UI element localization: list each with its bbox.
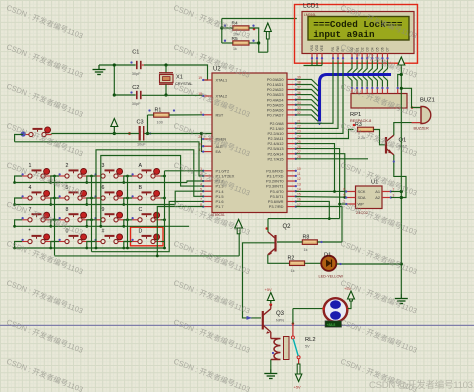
wire WP link: [340, 203, 347, 205]
node: [85, 225, 88, 228]
node: [49, 225, 52, 228]
wire Q2 emitter: [268, 255, 290, 263]
wire col3: [127, 176, 129, 248]
node: [126, 175, 129, 178]
wire col2: [91, 176, 93, 252]
wire row1: [15, 182, 187, 184]
node: [13, 225, 16, 228]
wire: [51, 175, 55, 177]
wire: [144, 65, 208, 80]
wire lcd data: [348, 61, 353, 73]
wire: [15, 242, 22, 249]
wire P0 to bus: [296, 85, 319, 92]
wire P0 to bus: [296, 115, 319, 122]
node: [85, 247, 88, 250]
wire rp1 up: [368, 76, 373, 87]
wire: [161, 219, 165, 221]
wire lcd data: [358, 61, 363, 73]
lcd display LCD1 LM016L: [302, 3, 414, 61]
svg-text:CSDN : 开发者编号1103: CSDN : 开发者编号1103: [5, 356, 84, 392]
wire Q1 collector: [394, 123, 421, 136]
wire coil gnd: [270, 360, 272, 370]
wire: [249, 28, 268, 52]
wire P3.7 run: [296, 207, 343, 243]
op-amp U2 microcontroller AT89C51: [198, 67, 301, 218]
wire rp1 up: [353, 76, 358, 87]
wire lcd data: [378, 61, 383, 73]
wire: [51, 198, 59, 205]
power +5V arrow: [111, 119, 118, 134]
wire: [124, 219, 128, 221]
wire: [51, 176, 59, 183]
wire: [46, 134, 139, 135]
node R5 junction: [257, 41, 260, 44]
wire: [87, 220, 95, 227]
wire: [221, 19, 223, 44]
ground relay: [264, 369, 277, 379]
svg-text:CSDN : 开发者编号1103: CSDN : 开发者编号1103: [339, 316, 418, 354]
node: [400, 190, 403, 193]
svg-text:CSDN : 开发者编号1103: CSDN : 开发者编号1103: [5, 159, 84, 197]
relay RL2 coil: [271, 337, 316, 360]
wire rp1 up: [348, 76, 353, 87]
transistor Q2: [266, 224, 292, 256]
push button A: [131, 163, 160, 178]
wire P2.6: [296, 154, 345, 198]
wire lcd data: [373, 61, 378, 73]
node: [95, 247, 98, 250]
motor: [322, 298, 349, 327]
node XTAL2 junction: [164, 93, 167, 96]
wire P2.4: [296, 144, 335, 192]
svg-text:CSDN : 开发者编号1103: CSDN : 开发者编号1103: [5, 41, 84, 79]
node: [49, 203, 52, 206]
push button 0: [58, 229, 87, 244]
wire lcd data: [368, 61, 373, 73]
wire A2: [391, 197, 401, 199]
svg-text:CSDN : 开发者编号1103: CSDN : 开发者编号1103: [5, 120, 84, 158]
wire rail: [400, 65, 402, 294]
svg-text:CSDN : 开发者编号1103: CSDN : 开发者编号1103: [172, 277, 251, 315]
wire: [222, 18, 297, 20]
svg-text:CSDN : 开发者编号1103: CSDN : 开发者编号1103: [172, 356, 251, 392]
crystal X1: [159, 73, 193, 86]
svg-text:CSDN : 开发者编号1103: CSDN : 开发者编号1103: [339, 81, 418, 119]
svg-text:CSDN : 开发者编号1103: CSDN : 开发者编号1103: [5, 238, 84, 276]
wire: [165, 84, 167, 95]
wire D1 right: [336, 263, 401, 265]
wire lcd data: [383, 61, 388, 73]
wire P2.5: [296, 149, 340, 219]
wire: [161, 197, 165, 199]
push button 1: [21, 163, 50, 178]
svg-text:CSDN : 开发者编号1103: CSDN : 开发者编号1103: [172, 41, 251, 79]
wire col1: [54, 176, 56, 255]
push button 7: [21, 207, 50, 222]
wire A1: [391, 191, 401, 193]
wire: [87, 198, 95, 205]
selection box LCD: [295, 5, 418, 64]
power +5V arrow EA: [223, 119, 230, 134]
power arrow down: [294, 364, 302, 390]
resistor pack RP1 RESPACK-8: [350, 87, 407, 123]
wire lcd data: [353, 61, 358, 73]
node R1-C3 junction: [146, 132, 149, 135]
svg-text:CSDN : 开发者编号1103: CSDN : 开发者编号1103: [5, 81, 84, 119]
wire: [15, 142, 204, 176]
push button 4: [21, 185, 50, 200]
node: [13, 247, 16, 250]
wire row4: [15, 247, 96, 249]
wire: [249, 42, 259, 44]
node: [400, 73, 403, 76]
wire: [88, 175, 92, 177]
node: [90, 197, 93, 200]
wire: [51, 241, 55, 243]
wire motor right: [348, 301, 352, 309]
wire: [55, 255, 240, 257]
svg-text:CSDN @开发者编号1103: CSDN @开发者编号1103: [369, 379, 473, 391]
push button 6: [94, 185, 123, 200]
node: [122, 181, 125, 184]
wire: [165, 65, 167, 74]
svg-text:CSDN : 开发者编号1103: CSDN : 开发者编号1103: [339, 238, 418, 276]
wire: [142, 94, 204, 96]
svg-text:CSDN : 开发者编号1103: CSDN : 开发者编号1103: [5, 277, 84, 315]
push button 3: [94, 163, 123, 178]
power +5V arrow under U2: [235, 219, 243, 256]
node: [126, 247, 129, 250]
wire: [15, 220, 22, 227]
wire: [15, 198, 22, 205]
node: [13, 181, 16, 184]
wire VSS VDD VEE: [304, 61, 323, 66]
eeprom U1 24C02: [343, 180, 394, 216]
wire Q3 feed: [243, 243, 275, 318]
node: [99, 225, 102, 228]
svg-text:CSDN : 开发者编号1103: CSDN : 开发者编号1103: [339, 199, 418, 237]
wire rp1 up: [383, 76, 388, 87]
svg-text:CSDN : 开发者编号1103: CSDN : 开发者编号1103: [339, 2, 418, 40]
node: [163, 175, 166, 178]
node: [85, 181, 88, 184]
wire: [374, 130, 386, 145]
wire riser row3: [101, 156, 204, 227]
resistor R2: [288, 255, 305, 273]
wire R2 right: [305, 262, 321, 264]
node: [53, 175, 56, 178]
svg-text:CSDN : 开发者编号1103: CSDN : 开发者编号1103: [172, 199, 251, 237]
capacitor C2: [130, 85, 141, 106]
svg-text:CSDN : 开发者编号1103: CSDN : 开发者编号1103: [172, 81, 251, 119]
wire RW: [296, 61, 339, 129]
node R4 junction: [220, 26, 223, 29]
node: [90, 218, 93, 221]
capacitor C1: [130, 50, 144, 76]
wire row2: [15, 204, 176, 206]
wire P0 to bus: [296, 79, 319, 86]
wire: [99, 64, 136, 66]
wire col4: [164, 171, 166, 248]
push button 5: [58, 185, 87, 200]
push button 2: [58, 163, 87, 178]
push button 9: [94, 207, 123, 222]
push button #: [94, 229, 123, 244]
bus tap marker: [247, 316, 253, 320]
svg-text:CSDN : 开发者编号1103: CSDN : 开发者编号1103: [339, 41, 418, 79]
resistor R5: [224, 36, 255, 51]
node: [338, 203, 341, 206]
node: [122, 247, 125, 250]
wire motor left: [293, 308, 324, 310]
power +5V arrow rail: [398, 57, 405, 65]
wire: [147, 115, 149, 134]
wire rp1 up: [358, 76, 363, 87]
svg-text:CSDN : 开发者编号1103: CSDN : 开发者编号1103: [172, 238, 251, 276]
wire P0 to bus: [296, 95, 319, 102]
wire: [15, 176, 22, 183]
svg-text:CSDN : 开发者编号1103: CSDN : 开发者编号1103: [339, 120, 418, 158]
wire R8 right: [317, 241, 342, 243]
node arrow junction: [113, 132, 116, 135]
node: [126, 218, 129, 221]
wire SDA: [296, 196, 347, 199]
power +5V arrow motor: [344, 286, 355, 301]
wire E: [296, 61, 344, 134]
wire: [88, 219, 92, 221]
wire BUZ1 power: [401, 88, 420, 107]
wire switch common: [292, 309, 294, 324]
wire Q3 emitter: [270, 332, 272, 339]
wire R8 base: [277, 241, 302, 243]
wire: [114, 94, 135, 96]
ground: [93, 65, 106, 75]
wire: [175, 191, 203, 204]
node: [122, 225, 125, 228]
wire: [92, 201, 204, 251]
node: [49, 247, 52, 250]
node C1 gnd junction: [113, 63, 116, 66]
node: [85, 203, 88, 206]
wire Q2 collector: [267, 219, 269, 232]
node: [90, 175, 93, 178]
wire: [187, 181, 204, 183]
wire: [124, 176, 132, 183]
wire row3b: [101, 225, 189, 227]
node: [13, 203, 16, 206]
node: [156, 255, 159, 258]
capacitor C3: [128, 120, 151, 147]
wire: [113, 65, 115, 95]
node XTAL1 junction: [164, 63, 167, 66]
wire: [124, 220, 132, 227]
push button D: [131, 229, 160, 244]
svg-text:CSDN : 开发者编号1103: CSDN : 开发者编号1103: [5, 2, 84, 40]
node: [328, 217, 331, 220]
node: [343, 196, 346, 199]
svg-text:CSDN : 开发者编号1103: CSDN : 开发者编号1103: [339, 159, 418, 197]
node: [49, 181, 52, 184]
wire lcd data: [363, 61, 368, 73]
wire P3.6 riser: [296, 201, 330, 218]
node EA junction: [200, 132, 203, 135]
node: [163, 197, 166, 200]
wire: [157, 207, 203, 256]
wire row4b: [96, 247, 165, 249]
buzzer BUZ1: [411, 98, 435, 131]
svg-text:CSDN : 开发者编号1103: CSDN : 开发者编号1103: [172, 159, 251, 197]
svg-text:CSDN : 开发者编号1103: CSDN : 开发者编号1103: [172, 2, 251, 40]
wire P2.3 to R3: [296, 130, 354, 139]
wire: [51, 220, 59, 227]
wire Q1 emitter: [393, 155, 406, 198]
wire SCL: [296, 190, 347, 192]
node: [400, 262, 403, 265]
svg-text:CSDN : 开发者编号1103: CSDN : 开发者编号1103: [339, 277, 418, 315]
wire: [51, 242, 59, 249]
power +5V arrow R4R5: [264, 23, 271, 52]
wire: [51, 219, 55, 221]
resistor R1: [148, 108, 175, 125]
wire Q3 collector: [270, 305, 272, 309]
push button C: [131, 207, 160, 222]
wire P2.7: [296, 158, 369, 160]
wire: [124, 175, 128, 177]
push button B: [131, 185, 160, 200]
svg-text:CSDN : 开发者编号1103: CSDN : 开发者编号1103: [172, 316, 251, 354]
push button *: [21, 229, 50, 244]
node: [400, 196, 403, 199]
node: [400, 87, 403, 90]
wire rp1 up: [363, 76, 368, 87]
wire: [87, 176, 95, 183]
wire P0 to bus: [296, 105, 319, 112]
wire rp1 up: [378, 76, 383, 87]
transistor Q1 9012: [386, 135, 407, 155]
wire RP1 common: [398, 75, 402, 87]
node C2 gnd junction: [113, 93, 116, 96]
wire: [169, 114, 204, 116]
wire sheet divider: [0, 324, 474, 326]
wire: [161, 175, 165, 177]
wire: [161, 241, 165, 243]
node: [126, 197, 129, 200]
svg-text:CSDN : 开发者编号1103: CSDN : 开发者编号1103: [5, 316, 84, 354]
wire: [202, 133, 227, 135]
selection box D key: [131, 227, 164, 246]
wire: [87, 242, 95, 249]
wire P0 to bus: [296, 90, 319, 97]
bus LCD data: [317, 75, 391, 126]
wire: [148, 114, 154, 116]
wire riser row4: [96, 150, 204, 248]
wire: [124, 242, 132, 249]
wire: [124, 197, 128, 199]
node: [122, 203, 125, 206]
wire P0 to bus: [296, 110, 319, 117]
svg-text:CSDN : 开发者编号1103: CSDN : 开发者编号1103: [5, 199, 84, 237]
resistor R8: [302, 234, 317, 252]
node: [163, 247, 166, 250]
wire RS: [296, 61, 334, 124]
push button door: [21, 127, 52, 137]
wire row3: [15, 225, 101, 227]
wire P0 to bus: [296, 100, 319, 107]
ground rail: [395, 294, 408, 304]
wire rp1 up: [373, 76, 378, 87]
wire: [124, 198, 132, 205]
wire: [144, 134, 203, 152]
node: [163, 218, 166, 221]
wire: [124, 241, 128, 243]
svg-text:CSDN : 开发者编号1103: CSDN : 开发者编号1103: [172, 120, 251, 158]
wire: [222, 42, 233, 44]
wire: [88, 197, 92, 199]
wire: [222, 27, 233, 29]
wire: [51, 197, 55, 199]
led D1: [319, 253, 344, 279]
node: [333, 190, 336, 193]
push button 8: [58, 207, 87, 222]
wire: [165, 170, 204, 172]
wire: [15, 135, 23, 142]
relay RL2 switch: [291, 322, 300, 364]
power +5V arrow Q3: [265, 287, 275, 306]
wire Q2 top: [268, 218, 340, 220]
transistor Q3 NPN: [263, 309, 285, 334]
node: [53, 197, 56, 200]
wire: [88, 241, 92, 243]
resistor R3: [353, 122, 374, 140]
node: [53, 218, 56, 221]
resistor R4: [224, 20, 255, 36]
